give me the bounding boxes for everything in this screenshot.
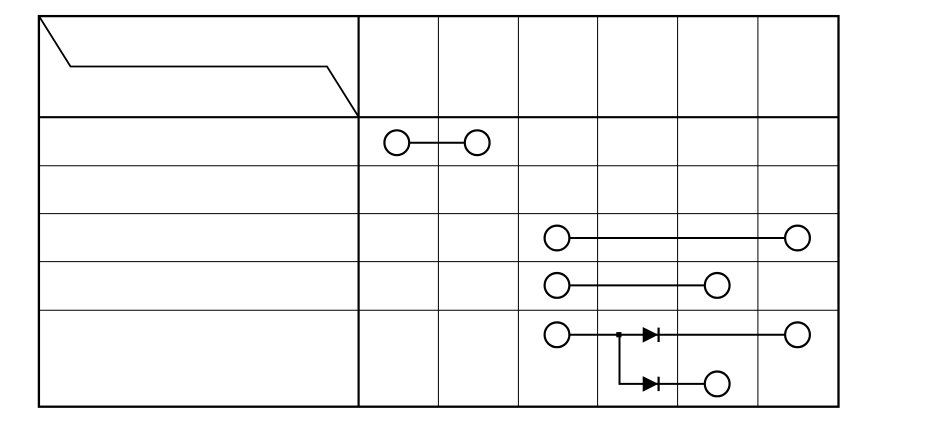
diode D2 (643, 377, 658, 391)
wire row1 (397, 142, 477, 144)
grid column line c3 (517, 16, 519, 406)
junction dot (616, 332, 621, 337)
wire row3 (557, 237, 798, 239)
grid row line r5 (39, 309, 838, 311)
contact circle row4 col5 (705, 273, 730, 298)
contact circle row3 col6 (785, 226, 810, 251)
wire row4 (557, 284, 717, 286)
diode D1 (643, 328, 658, 342)
grid column line c6 (757, 16, 759, 406)
contact circle row5 col6 (785, 322, 810, 347)
contact circle row5b col5 (705, 372, 730, 397)
wire branch vertical+lower (620, 335, 718, 384)
heavy column divider line x=358.6 (358, 16, 360, 406)
grid row line r2 (39, 165, 838, 167)
table outer frame (39, 16, 839, 407)
contact circle row4 col3 (545, 273, 570, 298)
grid column line c5 (677, 16, 679, 406)
grid row line r3 (39, 213, 838, 215)
grid column line c2 (437, 16, 439, 406)
contact circle row1 col1 (384, 130, 409, 155)
contact circle row1 col2 (465, 130, 490, 155)
grid column line c4 (597, 16, 599, 406)
contact circle row5 col3 (545, 322, 570, 347)
wire row5 upper (557, 334, 798, 336)
grid row line r4 (39, 261, 838, 263)
contact circle row3 col3 (545, 226, 570, 251)
header diagonal divider (39, 16, 359, 117)
heavy header divider line y=117.2 (39, 116, 838, 118)
